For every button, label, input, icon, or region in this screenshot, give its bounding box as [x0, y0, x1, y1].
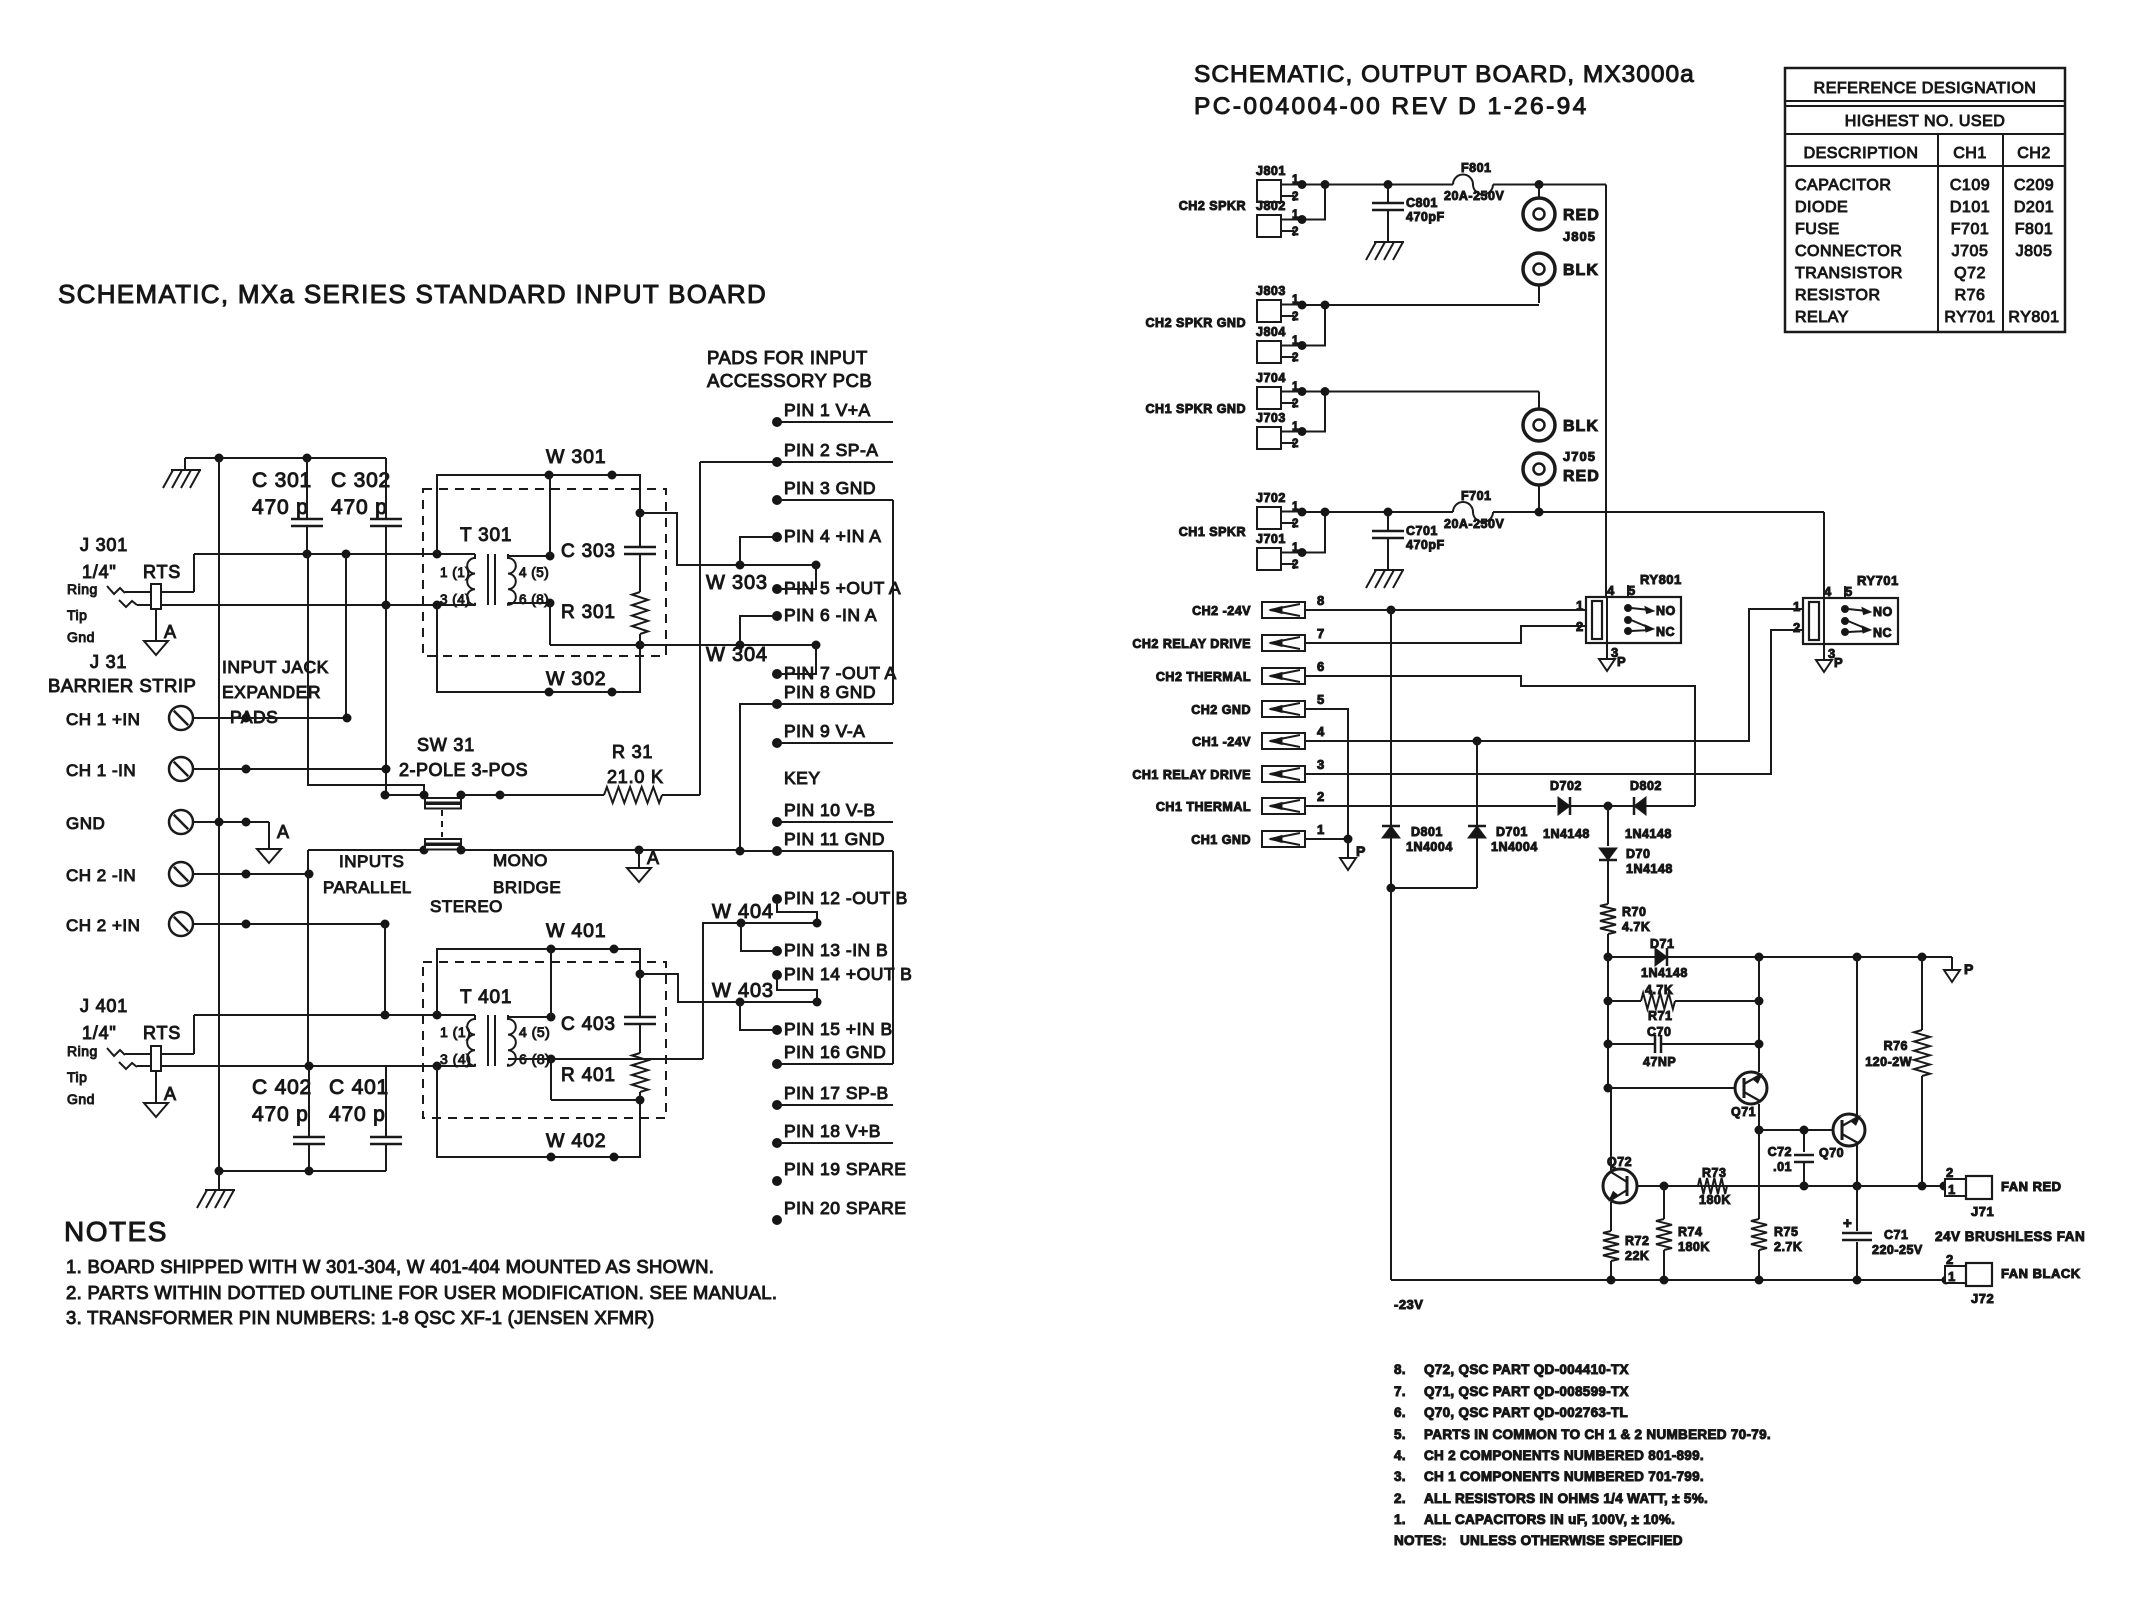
wire: CH2 main y=1015 — [194, 1014, 475, 1016]
svg-text:2: 2 — [1292, 352, 1299, 364]
svg-text:W 404: W 404 — [712, 901, 774, 923]
svg-text:R 301: R 301 — [561, 602, 616, 623]
wire: ring to main (J401) — [193, 1015, 195, 1054]
transformer T401 windings — [467, 1015, 475, 1066]
svg-text:J805: J805 — [2016, 243, 2053, 260]
svg-text:CH 2 +IN: CH 2 +IN — [66, 916, 140, 935]
svg-text:1N4148: 1N4148 — [1543, 827, 1590, 841]
svg-text:20A-250V: 20A-250V — [1444, 189, 1504, 203]
wire W403 feed — [640, 974, 817, 1002]
svg-text:2: 2 — [1946, 1252, 1954, 1267]
svg-text:F701: F701 — [1461, 489, 1492, 503]
svg-text:RY801: RY801 — [2008, 309, 2059, 326]
svg-text:BLK: BLK — [1563, 418, 1599, 435]
svg-text:3. TRANSFORMER PIN NUMBERS: 1: 3. TRANSFORMER PIN NUMBERS: 1-8 QSC XF-1… — [66, 1307, 654, 1328]
svg-text:5: 5 — [1845, 584, 1853, 599]
wire: vertical ground bus x=219 — [218, 458, 220, 1171]
svg-text:PIN 16 GND: PIN 16 GND — [784, 1042, 886, 1062]
svg-text:5: 5 — [1628, 583, 1636, 598]
svg-text:1/4": 1/4" — [82, 562, 117, 582]
capacitor C701 470pF — [1387, 512, 1389, 531]
wire: CH2 GND net — [1305, 709, 1348, 839]
wire: T301 secondary bottom — [508, 602, 550, 604]
svg-text:PADS FOR INPUT: PADS FOR INPUT — [707, 347, 868, 368]
svg-text:INPUTS: INPUTS — [339, 852, 404, 871]
wire: CH2 RELAY DRIVE net — [1305, 626, 1585, 643]
svg-text:CONNECTOR: CONNECTOR — [1795, 243, 1902, 260]
svg-text:DIODE: DIODE — [1795, 199, 1848, 216]
svg-text:FUSE: FUSE — [1795, 221, 1840, 238]
svg-text:ACCESSORY PCB: ACCESSORY PCB — [707, 370, 872, 391]
resistor R76 120-2W — [1921, 957, 1923, 1030]
svg-text:R74: R74 — [1678, 1225, 1702, 1239]
svg-text:CH 1 -IN: CH 1 -IN — [66, 761, 136, 780]
svg-text:CH1 RELAY DRIVE: CH1 RELAY DRIVE — [1132, 768, 1251, 782]
svg-text:Q71: Q71 — [1731, 1105, 1756, 1119]
svg-text:A: A — [164, 622, 177, 642]
svg-text:5.: 5. — [1394, 1427, 1406, 1442]
svg-text:470 p: 470 p — [329, 1103, 386, 1126]
svg-text:J 301: J 301 — [80, 535, 128, 555]
svg-text:1N4148: 1N4148 — [1626, 862, 1673, 876]
svg-text:EXPANDER: EXPANDER — [222, 682, 321, 702]
wire: CH1 spkr joins — [1302, 512, 1325, 553]
svg-text:4: 4 — [1317, 724, 1325, 739]
svg-text:J802: J802 — [1256, 199, 1286, 213]
svg-text:1: 1 — [1793, 599, 1801, 614]
svg-text:4.: 4. — [1394, 1448, 1406, 1463]
svg-text:R73: R73 — [1702, 1166, 1726, 1180]
svg-text:C71: C71 — [1884, 1228, 1908, 1242]
wire: Q72 base row y=1186 — [1637, 1185, 1944, 1187]
svg-text:W 301: W 301 — [546, 446, 606, 468]
wire: Q72 collector up — [1610, 1088, 1612, 1170]
svg-text:GND: GND — [66, 814, 105, 833]
svg-text:CH 2 COMPONENTS NUMBERED 801-8: CH 2 COMPONENTS NUMBERED 801-899. — [1424, 1448, 1704, 1463]
svg-text:PIN 18 V+B: PIN 18 V+B — [784, 1121, 881, 1141]
switch SW31 pole 2 — [308, 849, 424, 851]
svg-text:C 402: C 402 — [252, 1076, 312, 1099]
svg-text:NO: NO — [1656, 604, 1676, 618]
svg-text:470 p: 470 p — [252, 1103, 309, 1126]
switch SW31 link (dashed) — [441, 810, 443, 837]
svg-text:Q70: Q70 — [1819, 1146, 1844, 1160]
svg-text:1: 1 — [1948, 1182, 1956, 1197]
svg-text:C70: C70 — [1647, 1025, 1671, 1039]
diode D701 1N4004 — [1476, 741, 1478, 826]
svg-text:J801: J801 — [1256, 164, 1286, 178]
svg-text:CH1 THERMAL: CH1 THERMAL — [1156, 800, 1251, 814]
svg-text:PIN 11 GND: PIN 11 GND — [784, 829, 885, 849]
svg-text:J 401: J 401 — [80, 996, 128, 1016]
svg-text:RY801: RY801 — [1640, 572, 1682, 587]
svg-text:W 304: W 304 — [706, 644, 768, 666]
svg-text:RED: RED — [1563, 207, 1600, 224]
resistor R70 4.7K — [1600, 904, 1616, 934]
wire: CH1 tip y=605 — [386, 604, 475, 606]
svg-text:C 303: C 303 — [561, 541, 616, 562]
wire: -23V bus — [1390, 888, 1392, 1280]
svg-text:A: A — [647, 848, 660, 868]
svg-text:4 (5): 4 (5) — [519, 565, 549, 580]
wire: PIN11-PIN16 gnd bracket — [740, 850, 893, 852]
node A: gnd row arrow — [268, 822, 270, 849]
svg-text:PIN 19 SPARE: PIN 19 SPARE — [784, 1159, 906, 1179]
svg-text:1 (1): 1 (1) — [440, 1024, 471, 1040]
svg-text:PARTS IN COMMON TO CH 1 & 2 NU: PARTS IN COMMON TO CH 1 & 2 NUMBERED 70-… — [1424, 1427, 1771, 1442]
svg-text:2: 2 — [1317, 789, 1325, 804]
svg-text:INPUT JACK: INPUT JACK — [222, 657, 329, 677]
svg-text:1/4": 1/4" — [82, 1023, 117, 1043]
svg-text:R76: R76 — [1955, 287, 1986, 304]
svg-text:47NP: 47NP — [1643, 1055, 1676, 1069]
wire: CH2 rail down to RY801 — [1605, 185, 1607, 598]
resistor R73 180K — [1698, 1178, 1727, 1194]
node A: J401 gnd — [155, 1071, 157, 1103]
svg-text:T 301: T 301 — [460, 525, 512, 546]
svg-text:4 (5): 4 (5) — [519, 1024, 550, 1040]
svg-text:C 401: C 401 — [329, 1076, 389, 1099]
svg-text:FAN BLACK: FAN BLACK — [2001, 1266, 2081, 1281]
svg-text:W 403: W 403 — [712, 980, 774, 1002]
svg-text:J804: J804 — [1256, 325, 1286, 339]
binding post BLK (CH2) — [1523, 253, 1555, 285]
svg-text:22K: 22K — [1625, 1249, 1649, 1263]
wire: CH1 RELAY DRIVE net — [1305, 630, 1803, 774]
resistor R74 180K — [1663, 1186, 1665, 1219]
connector J72 FAN BLACK — [1945, 1266, 1966, 1283]
svg-text:Ring: Ring — [67, 1043, 98, 1059]
switch SW31 pole 1 — [385, 794, 424, 796]
svg-text:SCHEMATIC, MXa SERIES STANDARD: SCHEMATIC, MXa SERIES STANDARD INPUT BOA… — [58, 279, 767, 309]
wire: CH2 THERMAL net — [1305, 676, 1695, 806]
svg-text:R70: R70 — [1622, 905, 1646, 919]
svg-text:3 (4): 3 (4) — [440, 1051, 471, 1067]
svg-text:470 p: 470 p — [331, 496, 388, 519]
svg-text:FAN RED: FAN RED — [2001, 1179, 2062, 1194]
svg-text:PIN 12 -OUT B: PIN 12 -OUT B — [784, 888, 908, 908]
svg-text:D71: D71 — [1650, 937, 1674, 951]
svg-text:PARALLEL: PARALLEL — [323, 878, 412, 897]
wire: bottom ground rail — [219, 1170, 386, 1172]
wire: CH1 main (ring) y=554 — [194, 553, 475, 555]
svg-text:MONO: MONO — [493, 851, 548, 870]
svg-text:+: + — [1843, 1215, 1852, 1232]
resistor R71 4.7K — [1608, 1000, 1641, 1002]
svg-text:RTS: RTS — [143, 562, 181, 582]
svg-text:J702: J702 — [1256, 491, 1286, 505]
svg-text:F801: F801 — [2015, 221, 2053, 238]
transformer T301 dashed outline — [423, 489, 666, 656]
svg-text:Gnd: Gnd — [67, 1091, 95, 1107]
svg-text:PIN 10 V-B: PIN 10 V-B — [784, 800, 876, 820]
svg-text:CH1 GND: CH1 GND — [1191, 833, 1251, 847]
svg-text:F701: F701 — [1951, 221, 1989, 238]
svg-text:PIN 9 V-A: PIN 9 V-A — [784, 721, 865, 741]
wire: CH1 gnd joins — [1302, 392, 1325, 432]
svg-text:W 303: W 303 — [706, 572, 768, 594]
svg-text:2. PARTS WITHIN DOTTED OUTLIN: 2. PARTS WITHIN DOTTED OUTLINE FOR USER … — [66, 1282, 777, 1303]
svg-text:PIN 6 -IN A: PIN 6 -IN A — [784, 605, 877, 625]
svg-text:C701: C701 — [1406, 524, 1438, 538]
svg-text:C 302: C 302 — [331, 469, 391, 492]
wire: CH2 gnd joins — [1302, 305, 1325, 346]
svg-text:3 (4): 3 (4) — [440, 592, 470, 607]
wire: top ground rail — [185, 457, 386, 459]
wire: ring to main — [193, 554, 195, 592]
svg-text:P: P — [1834, 655, 1843, 670]
svg-text:CH2 SPKR GND: CH2 SPKR GND — [1146, 316, 1246, 330]
svg-text:2: 2 — [1292, 438, 1299, 450]
svg-text:Q70, QSC PART QD-002763-TL: Q70, QSC PART QD-002763-TL — [1424, 1405, 1628, 1420]
svg-text:2.: 2. — [1394, 1491, 1406, 1506]
svg-text:W 401: W 401 — [546, 920, 606, 942]
wire: -23V bottom rail — [1391, 1279, 1946, 1281]
svg-text:CH2 -24V: CH2 -24V — [1192, 604, 1251, 618]
jack RTS body — [151, 584, 161, 609]
svg-text:180K: 180K — [1699, 1193, 1731, 1207]
svg-text:470pF: 470pF — [1406, 210, 1445, 224]
wire: x=1609 down rail — [1607, 957, 1609, 1088]
wire: Q70 emitter — [1856, 1144, 1858, 1186]
wire: expander pads vertical x=346 — [345, 554, 347, 718]
svg-text:CH 1 +IN: CH 1 +IN — [66, 710, 140, 729]
svg-text:Ring: Ring — [67, 581, 98, 597]
svg-text:J803: J803 — [1256, 284, 1286, 298]
svg-text:J 31: J 31 — [90, 652, 127, 672]
svg-text:CH2: CH2 — [2017, 145, 2051, 162]
svg-text:1 (1): 1 (1) — [440, 565, 470, 580]
wire: CH1 THERMAL net — [1305, 805, 1556, 807]
svg-text:PIN 2 SP-A: PIN 2 SP-A — [784, 440, 878, 460]
svg-text:CH 2 -IN: CH 2 -IN — [66, 866, 136, 885]
svg-text:C 301: C 301 — [252, 469, 312, 492]
svg-text:DESCRIPTION: DESCRIPTION — [1804, 145, 1919, 162]
svg-text:Tip: Tip — [67, 607, 87, 623]
ground: C701 — [1387, 538, 1389, 570]
wire: T301 secondary top — [508, 555, 550, 557]
svg-text:D101: D101 — [1950, 199, 1990, 216]
wire: diode commons — [1391, 887, 1477, 889]
svg-text:1N4148: 1N4148 — [1625, 827, 1672, 841]
svg-text:PIN 17 SP-B: PIN 17 SP-B — [784, 1083, 889, 1103]
wire W404 riser x=703 — [703, 923, 817, 1059]
svg-text:PIN 20 SPARE: PIN 20 SPARE — [784, 1198, 906, 1218]
svg-text:Tip: Tip — [67, 1069, 87, 1085]
svg-text:1.: 1. — [1394, 1512, 1406, 1527]
svg-text:RED: RED — [1563, 468, 1600, 485]
svg-text:D702: D702 — [1550, 779, 1582, 793]
svg-text:3.: 3. — [1394, 1469, 1406, 1484]
svg-text:R75: R75 — [1774, 1225, 1798, 1239]
svg-text:PIN 15 +IN B: PIN 15 +IN B — [784, 1019, 893, 1039]
svg-text:-23V: -23V — [1394, 1297, 1423, 1312]
svg-text:CAPACITOR: CAPACITOR — [1795, 177, 1891, 194]
svg-text:P: P — [1617, 654, 1626, 669]
svg-text:7: 7 — [1317, 626, 1325, 641]
svg-text:REFERENCE DESIGNATION: REFERENCE DESIGNATION — [1814, 80, 2037, 97]
svg-text:1: 1 — [1948, 1269, 1956, 1284]
svg-text:1. BOARD SHIPPED WITH W 301-3: 1. BOARD SHIPPED WITH W 301-304, W 401-4… — [66, 1256, 714, 1277]
svg-text:4.7K: 4.7K — [1622, 920, 1650, 934]
svg-text:CH1 SPKR GND: CH1 SPKR GND — [1146, 402, 1246, 416]
svg-text:R72: R72 — [1625, 1234, 1649, 1248]
wire W304 feed — [640, 644, 816, 646]
svg-text:Gnd: Gnd — [67, 629, 95, 645]
capacitor C801 470pF — [1387, 185, 1389, 204]
wire: CH1 SPKR rail y=512 — [1325, 511, 1453, 513]
svg-text:PIN 3 GND: PIN 3 GND — [784, 478, 876, 498]
svg-text:20A-250V: 20A-250V — [1444, 517, 1504, 531]
svg-text:Q72: Q72 — [1954, 265, 1986, 282]
svg-text:J705: J705 — [1952, 243, 1989, 260]
svg-text:2-POLE 3-POS: 2-POLE 3-POS — [399, 760, 528, 780]
node A: mono bridge arrow — [638, 850, 640, 868]
transistor Q71 — [1608, 1087, 1735, 1089]
wire: CH1 rail down to RY701 — [1823, 512, 1825, 598]
svg-text:120-2W: 120-2W — [1865, 1055, 1912, 1069]
svg-text:CH2 RELAY DRIVE: CH2 RELAY DRIVE — [1132, 637, 1251, 651]
svg-text:D802: D802 — [1630, 779, 1662, 793]
svg-text:7.: 7. — [1394, 1384, 1406, 1399]
svg-text:SCHEMATIC, OUTPUT BOARD, MX300: SCHEMATIC, OUTPUT BOARD, MX3000a — [1194, 61, 1695, 88]
ground (bottom left) — [218, 1171, 220, 1190]
junction dots barrier rows — [343, 714, 352, 723]
transformer T401 dashed outline — [423, 962, 666, 1118]
svg-text:CH2 SPKR: CH2 SPKR — [1179, 199, 1246, 213]
svg-text:CH1 -24V: CH1 -24V — [1192, 735, 1251, 749]
svg-text:24V BRUSHLESS FAN: 24V BRUSHLESS FAN — [1935, 1229, 2085, 1244]
connector J71 FAN RED — [1945, 1179, 1966, 1196]
svg-text:21.0 K: 21.0 K — [607, 767, 664, 787]
svg-text:CH 1 COMPONENTS NUMBERED 701-7: CH 1 COMPONENTS NUMBERED 701-799. — [1424, 1469, 1704, 1484]
svg-text:8.: 8. — [1394, 1362, 1406, 1377]
svg-text:2: 2 — [1292, 398, 1299, 410]
wire: expander pads vertical x=386 — [385, 605, 387, 795]
svg-text:ALL CAPACITORS IN uF, 100V, ±: ALL CAPACITORS IN uF, 100V, ± 10%. — [1424, 1512, 1675, 1527]
ground: C801 — [1387, 210, 1389, 242]
svg-text:A: A — [164, 1084, 177, 1104]
svg-text:1: 1 — [1317, 822, 1325, 837]
svg-text:R76: R76 — [1884, 1039, 1908, 1053]
svg-text:2: 2 — [1292, 191, 1299, 203]
svg-text:1N4148: 1N4148 — [1641, 966, 1688, 980]
svg-text:2: 2 — [1292, 311, 1299, 323]
svg-text:J72: J72 — [1971, 1291, 1994, 1306]
table: reference designation — [1785, 68, 2065, 332]
svg-text:RY701: RY701 — [1857, 573, 1899, 588]
wire: CH2 spkr joins — [1302, 185, 1325, 220]
svg-text:D801: D801 — [1411, 825, 1443, 839]
svg-text:NC: NC — [1873, 626, 1892, 640]
svg-text:NOTES: NOTES — [64, 1216, 168, 1247]
wire: CH2 SPKR GND row — [1325, 304, 1539, 306]
svg-text:PIN 1 V+A: PIN 1 V+A — [784, 400, 871, 420]
binding post J805 RED — [1538, 185, 1540, 199]
svg-text:P: P — [1356, 843, 1366, 859]
svg-text:4: 4 — [1607, 583, 1615, 598]
svg-text:PC-004004-00 REV D 1-26-94: PC-004004-00 REV D 1-26-94 — [1194, 93, 1589, 120]
wire: CH1 SPKR GND row — [1325, 391, 1539, 393]
svg-text:180K: 180K — [1678, 1240, 1710, 1254]
svg-text:D201: D201 — [2014, 199, 2054, 216]
svg-text:RY701: RY701 — [1944, 309, 1995, 326]
svg-text:CH2 GND: CH2 GND — [1191, 703, 1251, 717]
wire: PIN8 to PIN11 gnd link — [740, 704, 777, 851]
svg-text:2: 2 — [1292, 226, 1299, 238]
svg-text:RESISTOR: RESISTOR — [1795, 287, 1881, 304]
wire: secondary bottom to W404 riser — [551, 1058, 703, 1060]
svg-text:UNLESS OTHERWISE SPECIFIED: UNLESS OTHERWISE SPECIFIED — [1460, 1533, 1683, 1548]
svg-text:J71: J71 — [1971, 1204, 1994, 1219]
svg-text:CH2 THERMAL: CH2 THERMAL — [1156, 670, 1251, 684]
svg-text:R 401: R 401 — [561, 1065, 616, 1086]
svg-text:PIN 13 -IN B: PIN 13 -IN B — [784, 940, 888, 960]
svg-text:6.: 6. — [1394, 1405, 1406, 1420]
svg-text:C109: C109 — [1950, 177, 1990, 194]
capacitor C70 47NP — [1608, 1043, 1655, 1045]
svg-text:NO: NO — [1873, 605, 1893, 619]
wire: PIN3-PIN8 gnd bracket — [777, 499, 893, 501]
transformer T301 windings — [467, 554, 475, 605]
svg-text:D701: D701 — [1496, 825, 1528, 839]
svg-text:5: 5 — [1317, 692, 1325, 707]
resistor R75 2.7K — [1758, 1130, 1760, 1219]
svg-text:470 p: 470 p — [252, 496, 309, 519]
svg-text:8: 8 — [1317, 593, 1325, 608]
svg-text:C 403: C 403 — [561, 1014, 616, 1035]
svg-text:NOTES:: NOTES: — [1394, 1533, 1447, 1548]
capacitor C72 .01 — [1803, 1130, 1805, 1152]
wire: CH2 -24V net — [1305, 609, 1585, 611]
relay RY801 — [1586, 597, 1681, 643]
wire: CH2-IN to switch row x=308 — [307, 850, 309, 874]
svg-text:2: 2 — [1576, 619, 1584, 634]
svg-text:1N4004: 1N4004 — [1406, 840, 1453, 854]
svg-text:TRANSISTOR: TRANSISTOR — [1795, 265, 1903, 282]
svg-text:A: A — [277, 822, 290, 842]
ground P: CH gnd — [1347, 839, 1349, 858]
svg-text:.01: .01 — [1773, 1160, 1792, 1174]
svg-text:CH1 SPKR: CH1 SPKR — [1179, 525, 1246, 539]
svg-text:1N4004: 1N4004 — [1491, 840, 1538, 854]
svg-text:4: 4 — [1824, 584, 1832, 599]
svg-text:BLK: BLK — [1563, 262, 1599, 279]
wire: x=1759 ladder rail — [1758, 957, 1760, 1072]
svg-text:470pF: 470pF — [1406, 538, 1445, 552]
svg-text:1: 1 — [1576, 598, 1584, 613]
svg-text:C209: C209 — [2014, 177, 2054, 194]
diode D801 1N4004 — [1390, 610, 1392, 826]
svg-text:STEREO: STEREO — [430, 897, 503, 916]
wire: CH1 -24V net — [1305, 609, 1803, 741]
svg-text:R71: R71 — [1648, 1009, 1672, 1023]
svg-text:RTS: RTS — [143, 1023, 181, 1043]
svg-text:C72: C72 — [1768, 1145, 1792, 1159]
diode D71 1N4148 — [1608, 956, 1655, 958]
svg-text:2: 2 — [1292, 518, 1299, 530]
svg-text:Q71, QSC PART QD-008599-TX: Q71, QSC PART QD-008599-TX — [1424, 1384, 1629, 1399]
svg-text:ALL RESISTORS IN OHMS 1/4 WATT: ALL RESISTORS IN OHMS 1/4 WATT, ± 5%. — [1424, 1491, 1708, 1506]
wire: P rail y=957 — [1667, 956, 1952, 958]
svg-text:BARRIER STRIP: BARRIER STRIP — [48, 675, 196, 696]
svg-text:W 402: W 402 — [546, 1130, 606, 1152]
svg-text:Q72, QSC PART QD-004410-TX: Q72, QSC PART QD-004410-TX — [1424, 1362, 1629, 1377]
svg-text:3: 3 — [1317, 757, 1325, 772]
wire: SP-A vertical x=700 — [699, 462, 701, 795]
svg-text:PIN 8 GND: PIN 8 GND — [784, 682, 876, 702]
wire: T401 secondary bottom — [508, 1058, 551, 1060]
